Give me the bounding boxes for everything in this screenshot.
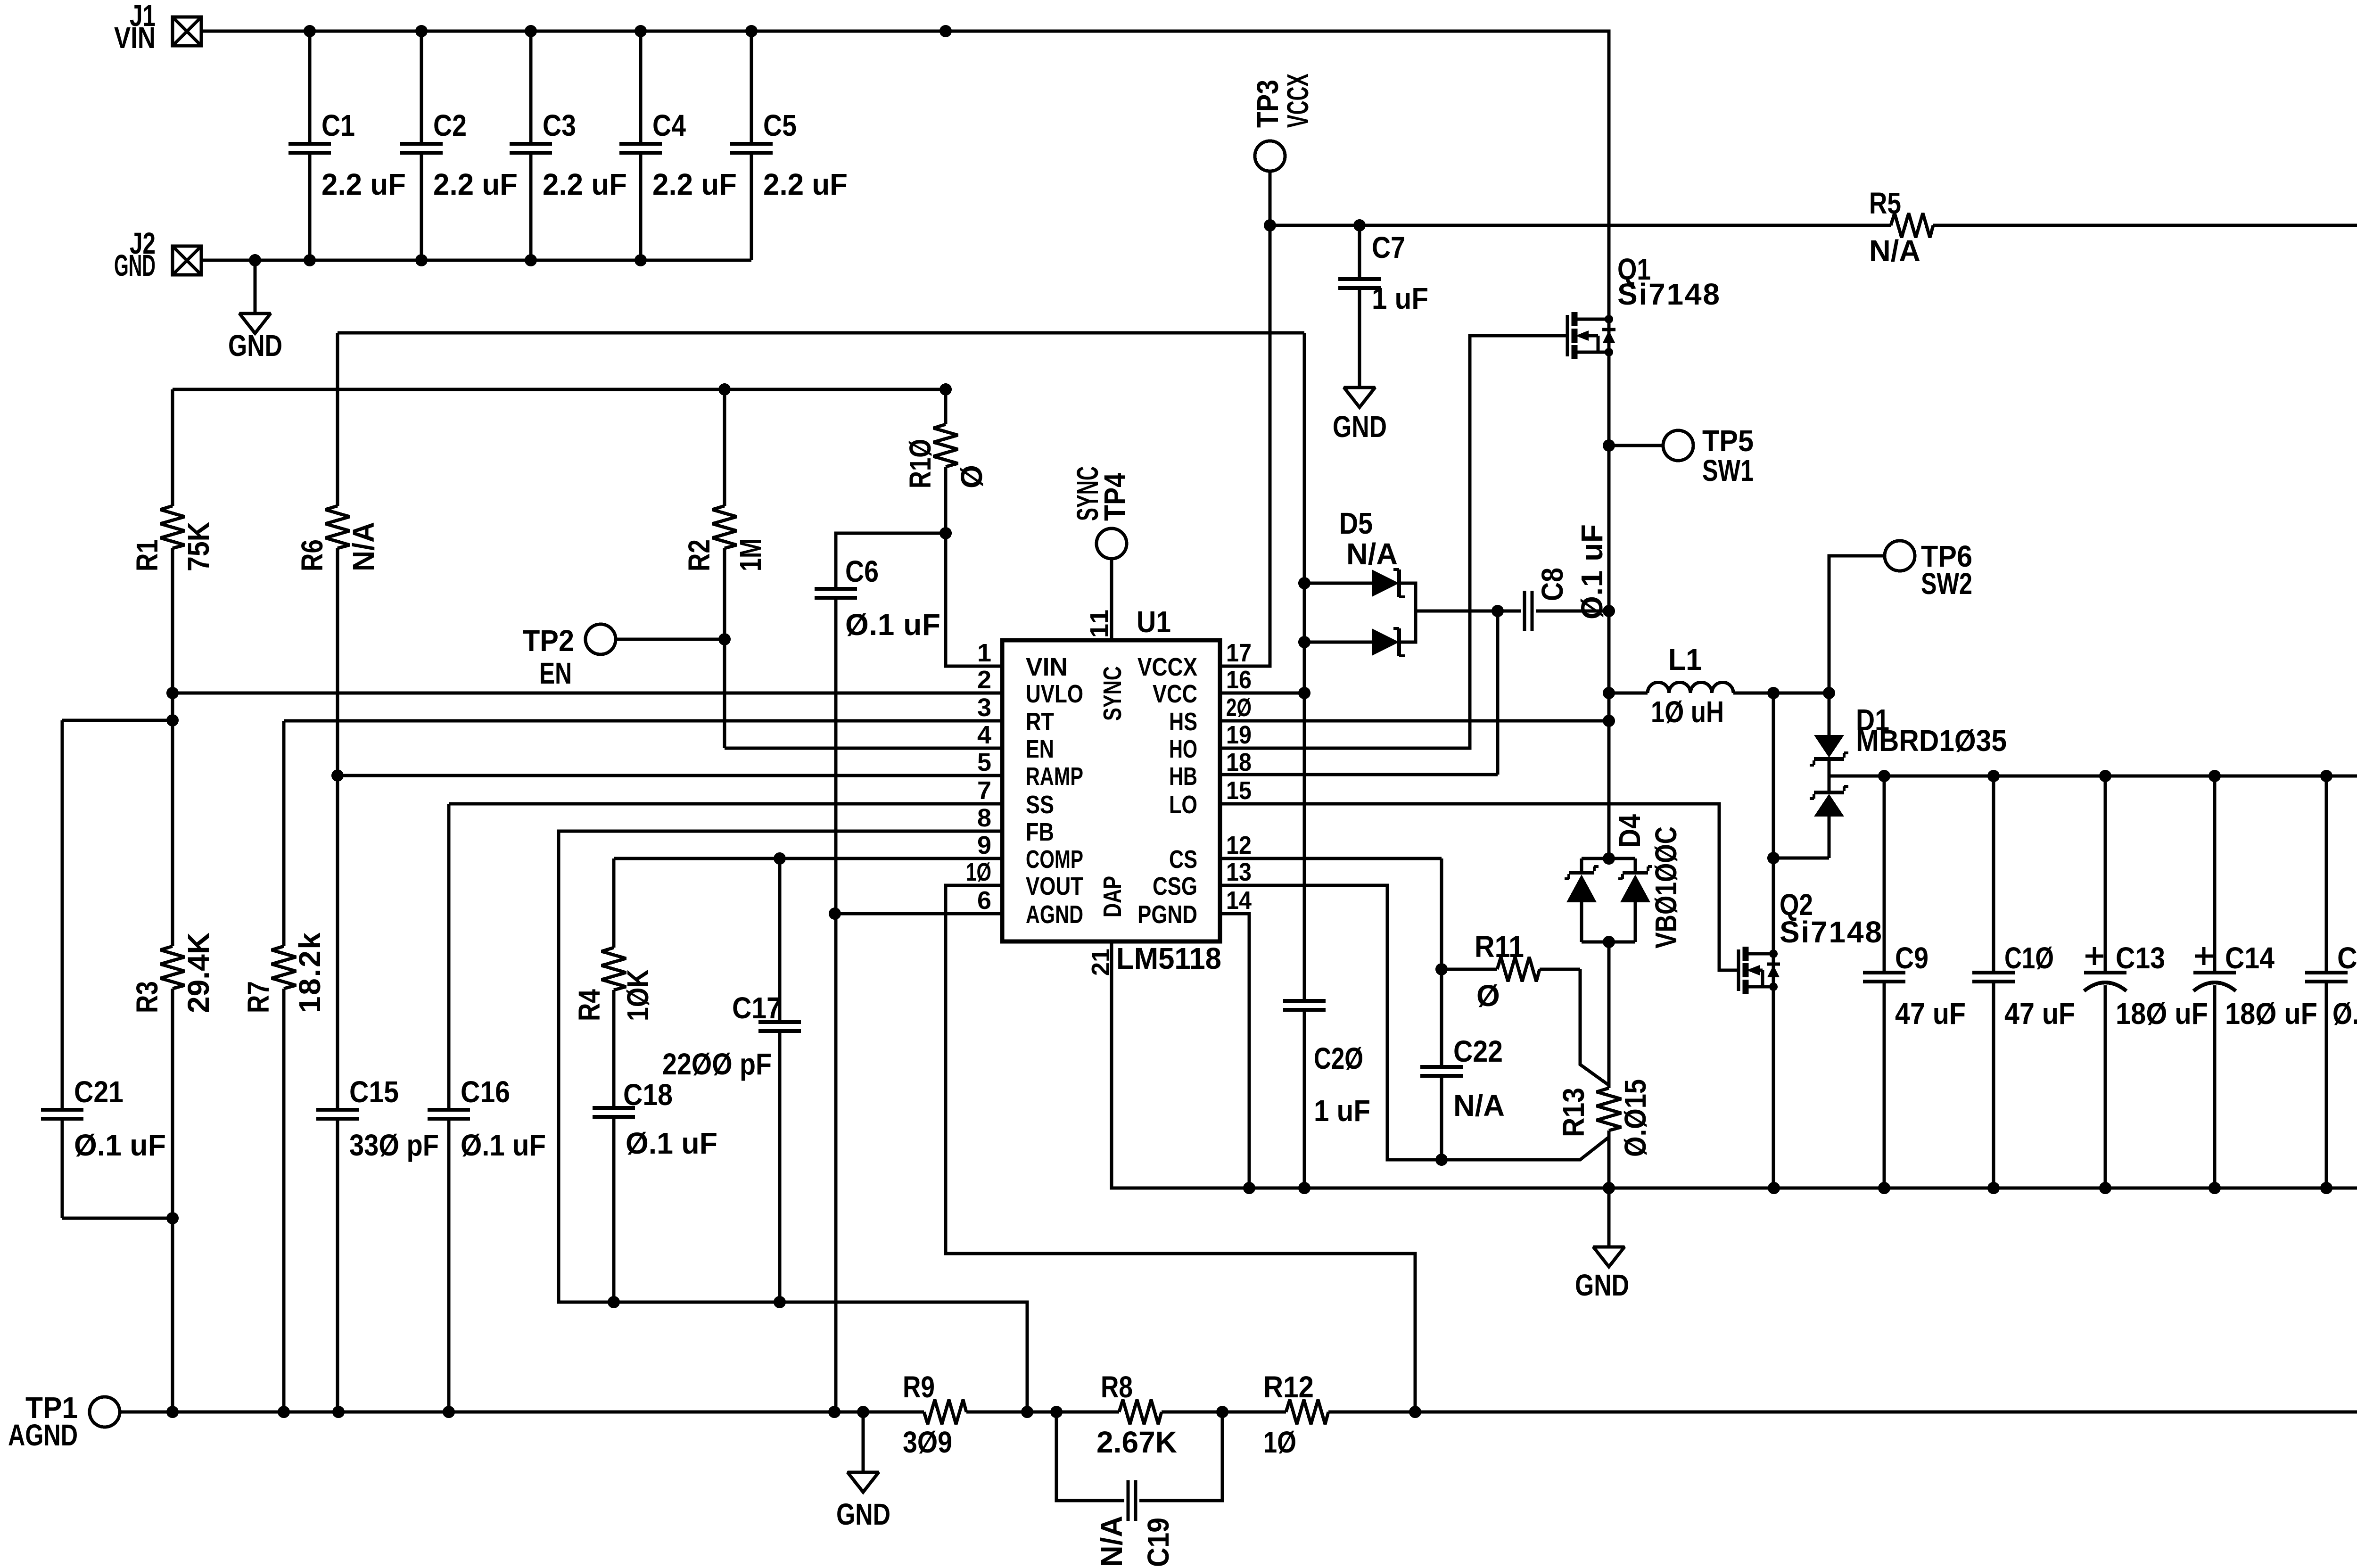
wire SS net pin7 <box>449 802 1002 806</box>
svg-text:R3: R3 <box>130 981 164 1013</box>
wire HS pin20 <box>1220 715 1615 727</box>
resistor R2 1M <box>682 389 767 748</box>
svg-text:L1: L1 <box>1668 643 1702 677</box>
svg-text:7: 7 <box>977 776 991 805</box>
capacitor C6 0.1 uF <box>815 533 946 1412</box>
capacitor C21 0.1 uF <box>41 720 166 1218</box>
diode D1 MBRD1035 <box>1810 693 2007 858</box>
resistor R7 18.2k <box>241 721 327 1412</box>
U1 left pin 8 FB <box>977 804 1054 846</box>
wire PGND pin14 <box>1220 914 1249 1188</box>
svg-text:EN: EN <box>1026 735 1054 763</box>
svg-text:VOUT: VOUT <box>1026 872 1083 900</box>
svg-text:Ø.1 uF: Ø.1 uF <box>74 1128 166 1162</box>
svg-text:N/A: N/A <box>1346 537 1398 571</box>
resistor R5 N/A <box>1869 186 1933 268</box>
testpoint TP2 EN <box>523 624 731 690</box>
diode D4 VB0100C dual <box>1565 814 1683 949</box>
transistor Q2 Si7148 <box>1739 888 1882 994</box>
svg-text:C4: C4 <box>652 108 686 142</box>
svg-text:HO: HO <box>1169 735 1197 763</box>
connector J1 VIN <box>114 0 201 55</box>
svg-text:17: 17 <box>1226 639 1252 667</box>
svg-text:VCCX: VCCX <box>1281 74 1315 128</box>
svg-text:3Ø9: 3Ø9 <box>903 1425 952 1459</box>
svg-text:15: 15 <box>1226 776 1252 805</box>
U1 left pin 6 AGND <box>977 886 1083 929</box>
svg-text:2.2 uF: 2.2 uF <box>652 167 737 201</box>
svg-text:18Ø uF: 18Ø uF <box>2225 997 2317 1031</box>
svg-text:RT: RT <box>1026 708 1054 736</box>
svg-text:PGND: PGND <box>1137 900 1197 929</box>
svg-text:R1: R1 <box>130 539 164 571</box>
ground symbol below C7 <box>1333 388 1387 444</box>
wire C21 bottom to R3 <box>62 1212 179 1224</box>
U1 left pin 5 RAMP <box>977 748 1083 791</box>
testpoint TP4 SYNC <box>1071 466 1132 640</box>
svg-text:AGND: AGND <box>1026 900 1083 929</box>
svg-text:C17: C17 <box>732 991 782 1025</box>
svg-text:Ø: Ø <box>1476 979 1500 1013</box>
U1 right pin 14 PGND <box>1137 886 1252 929</box>
svg-text:R9: R9 <box>903 1370 935 1404</box>
svg-text:C2: C2 <box>433 108 467 142</box>
svg-text:4: 4 <box>977 721 991 749</box>
diode D5 N/A dual <box>1304 506 1416 656</box>
junction D5 anodes on VCC line <box>1298 577 1310 648</box>
svg-text:LM5118: LM5118 <box>1116 941 1221 975</box>
svg-text:Ø.47 uF: Ø.47 uF <box>2332 997 2357 1031</box>
svg-text:CSG: CSG <box>1153 872 1197 900</box>
svg-text:C14: C14 <box>2225 941 2275 975</box>
svg-text:1ØK: 1ØK <box>621 969 655 1021</box>
svg-text:Ø.Ø15: Ø.Ø15 <box>1618 1079 1652 1157</box>
capacitor C14 180 uF polarized <box>2193 776 2317 1188</box>
svg-text:1Ø: 1Ø <box>966 858 991 886</box>
svg-text:Ø.1 uF: Ø.1 uF <box>626 1126 717 1160</box>
svg-text:C11: C11 <box>2337 941 2357 975</box>
svg-text:C5: C5 <box>763 108 797 142</box>
wire LO pin15 to Q2 gate <box>1220 804 1739 970</box>
svg-text:R12: R12 <box>1263 1370 1314 1404</box>
wire AGND rail <box>119 1406 1033 1418</box>
svg-text:Ø.1 uF: Ø.1 uF <box>461 1128 546 1162</box>
svg-text:SYNC: SYNC <box>1098 666 1127 721</box>
U1 right pin 16 VCC <box>1153 666 1252 708</box>
wire VCC rail y=706 <box>338 331 1304 335</box>
svg-text:FB: FB <box>1026 818 1054 846</box>
svg-text:TP5: TP5 <box>1702 424 1754 458</box>
svg-text:1 uF: 1 uF <box>1314 1094 1370 1128</box>
capacitor C22 N/A <box>1420 969 1505 1160</box>
svg-text:2.2 uF: 2.2 uF <box>321 167 406 201</box>
svg-text:C8: C8 <box>1535 568 1569 601</box>
svg-text:VIN: VIN <box>114 21 156 55</box>
svg-text:TP4: TP4 <box>1098 473 1132 521</box>
capacitor C1 2.2 uF <box>288 31 406 260</box>
wire VCC pin16 to C20 <box>1220 687 1310 699</box>
svg-text:R7: R7 <box>241 981 275 1013</box>
svg-text:9: 9 <box>977 831 991 859</box>
svg-text:C13: C13 <box>2116 941 2165 975</box>
svg-text:33Ø pF: 33Ø pF <box>349 1128 439 1162</box>
svg-text:C21: C21 <box>74 1075 124 1109</box>
svg-text:13: 13 <box>1226 858 1252 886</box>
svg-text:CS: CS <box>1169 845 1197 874</box>
svg-text:2: 2 <box>977 666 991 694</box>
capacitor C18 0.1 uF <box>593 1078 717 1302</box>
wire SW1 node vertical <box>1603 352 1615 858</box>
svg-text:R6: R6 <box>295 539 329 571</box>
resistor R8 2.67K <box>1050 1370 1228 1459</box>
svg-text:N/A: N/A <box>1869 234 1920 268</box>
svg-text:2.2 uF: 2.2 uF <box>763 167 848 201</box>
svg-text:18.2k: 18.2k <box>293 933 327 1013</box>
svg-text:C19: C19 <box>1141 1518 1175 1567</box>
connector J2 GND <box>114 226 201 282</box>
svg-text:D4: D4 <box>1613 814 1647 848</box>
U1 left pin 9 COMP <box>977 831 1083 874</box>
wire HB boot node <box>1220 605 1521 775</box>
U1 right pin 19 HO <box>1169 721 1252 763</box>
svg-text:GND: GND <box>1333 410 1387 444</box>
resistor R6 N/A <box>295 333 380 776</box>
svg-text:VIN: VIN <box>1026 653 1068 681</box>
svg-text:C6: C6 <box>845 554 879 588</box>
resistor R1 75K <box>130 389 215 693</box>
wire VIN pin1 <box>946 533 1002 666</box>
svg-text:2.2 uF: 2.2 uF <box>543 167 627 201</box>
svg-text:LO: LO <box>1169 791 1197 819</box>
resistor R11 0 <box>1442 930 1580 1013</box>
svg-text:R1Ø: R1Ø <box>903 439 937 488</box>
capacitor C19 N/A <box>1056 1412 1222 1567</box>
capacitor C8 0.1 uF <box>1525 524 1609 631</box>
svg-text:N/A: N/A <box>346 522 380 571</box>
svg-text:C9: C9 <box>1895 941 1928 975</box>
svg-text:DAP: DAP <box>1098 876 1127 917</box>
svg-text:EN: EN <box>539 656 572 690</box>
capacitor C2 2.2 uF <box>400 31 518 260</box>
svg-text:3: 3 <box>977 693 991 722</box>
wire VIN top rail <box>201 31 1609 319</box>
U1 left pin 4 EN <box>977 721 1054 763</box>
svg-text:GND: GND <box>114 248 156 282</box>
U1 pin 21 DAP label <box>1087 876 1127 976</box>
svg-text:MBRD1Ø35: MBRD1Ø35 <box>1856 724 2007 758</box>
svg-text:HB: HB <box>1169 762 1197 791</box>
svg-text:Si7148: Si7148 <box>1780 915 1882 949</box>
junction PGND rail dots <box>1243 1182 2357 1194</box>
svg-text:C3: C3 <box>543 108 576 142</box>
svg-text:2Ø: 2Ø <box>1226 693 1252 722</box>
svg-text:VCC: VCC <box>1153 680 1197 708</box>
wire VOUT rail <box>1829 770 2357 782</box>
svg-text:D5: D5 <box>1339 506 1373 540</box>
wire VOUT feedback wrap <box>1409 776 2357 1418</box>
svg-text:1M: 1M <box>733 538 767 571</box>
U1 right pin 17 VCCX <box>1137 639 1252 681</box>
resistor R4 10K <box>572 858 655 1106</box>
resistor R9 309 <box>903 1370 1056 1459</box>
svg-text:C7: C7 <box>1372 231 1405 264</box>
svg-text:R13: R13 <box>1557 1088 1591 1137</box>
svg-text:N/A: N/A <box>1453 1089 1505 1122</box>
U1 right pin 20 HS <box>1169 693 1252 736</box>
svg-text:18Ø uF: 18Ø uF <box>2116 997 2208 1031</box>
U1 right pin 12 CS <box>1169 831 1252 874</box>
capacitor C13 180 uF polarized <box>2084 776 2208 1188</box>
junction SW2 node dots <box>1767 687 1835 699</box>
svg-text:N/A: N/A <box>1095 1516 1129 1567</box>
U1 left pin 3 RT <box>977 693 1054 736</box>
ground symbol on AGND rail <box>836 1412 890 1531</box>
resistor R13 0.015 <box>1557 942 1652 1188</box>
svg-text:UVLO: UVLO <box>1026 680 1083 708</box>
wire DAP pin21 to PGND rail <box>1112 941 2357 1188</box>
testpoint TP6 SW2 <box>1829 539 1972 693</box>
wire RAMP net pin5 <box>331 769 1002 782</box>
wire Q2 drain/source <box>1772 858 1775 1188</box>
svg-text:C2Ø: C2Ø <box>1314 1041 1363 1075</box>
svg-text:AGND: AGND <box>8 1418 78 1452</box>
svg-text:1Ø: 1Ø <box>1263 1425 1296 1459</box>
wire FB net pin8 <box>559 831 1027 1412</box>
capacitor C20 1 uF <box>1283 333 1370 1188</box>
svg-text:Si7148: Si7148 <box>1617 277 1720 311</box>
svg-text:VBØ1ØØC: VBØ1ØØC <box>1649 826 1683 949</box>
svg-text:18: 18 <box>1226 748 1252 776</box>
wire VCCX pin17 <box>1220 225 1270 666</box>
svg-text:R2: R2 <box>682 539 716 571</box>
capacitor C15 330 pF <box>316 776 439 1412</box>
testpoint TP5 SW1 <box>1603 424 1754 487</box>
wire UVLO net pin2 <box>166 687 1002 699</box>
capacitor C7 1 uF <box>1338 225 1428 388</box>
svg-text:HS: HS <box>1169 708 1197 736</box>
svg-text:R11: R11 <box>1475 930 1524 964</box>
junction R10 bottom C6 tap <box>940 527 952 539</box>
wire EN net pin4 <box>725 747 1002 750</box>
junction FB comp rail dots <box>608 1296 786 1308</box>
svg-text:14: 14 <box>1226 886 1252 915</box>
U1 left pin 1 VIN <box>977 639 1068 681</box>
svg-text:5: 5 <box>977 748 991 776</box>
svg-text:1 uF: 1 uF <box>1372 281 1428 315</box>
U1 right pin 15 LO <box>1169 776 1252 819</box>
wire HO pin19 to Q1 gate <box>1220 336 1567 748</box>
svg-text:1: 1 <box>977 639 991 667</box>
wire VIN divider rail y=826 <box>173 383 952 396</box>
U1 left pin 2 UVLO <box>977 666 1083 708</box>
U1 right pin 18 HB <box>1169 748 1252 791</box>
ground symbol below R13 <box>1575 1188 1629 1302</box>
svg-text:C1: C1 <box>321 108 355 142</box>
svg-text:COMP: COMP <box>1026 845 1083 874</box>
resistor R12 10 <box>1222 1370 1415 1459</box>
svg-text:SW2: SW2 <box>1921 567 1972 601</box>
capacitor C16 0.1 uF <box>428 804 546 1412</box>
testpoint TP3 VCCX <box>1251 74 1315 225</box>
svg-text:SW1: SW1 <box>1702 454 1754 487</box>
svg-text:75K: 75K <box>181 522 215 571</box>
svg-text:GND: GND <box>228 329 282 363</box>
svg-text:R8: R8 <box>1101 1370 1133 1404</box>
wire COMP net pin9 <box>614 852 1002 865</box>
svg-text:R5: R5 <box>1869 186 1901 220</box>
svg-text:RAMP: RAMP <box>1026 762 1083 791</box>
capacitor C3 2.2 uF <box>510 31 627 260</box>
svg-text:16: 16 <box>1226 666 1252 694</box>
capacitor C4 2.2 uF <box>619 31 737 260</box>
svg-text:47 uF: 47 uF <box>1895 997 1966 1031</box>
svg-text:2.2 uF: 2.2 uF <box>433 167 518 201</box>
resistor R3 29.4K <box>130 720 215 1412</box>
junction VIN rail dots <box>304 25 952 37</box>
svg-text:R4: R4 <box>572 989 606 1021</box>
capacitor C9 47 uF <box>1863 776 1966 1188</box>
svg-text:22ØØ pF: 22ØØ pF <box>662 1047 772 1081</box>
svg-text:8: 8 <box>977 804 991 832</box>
wire D1 anode return to SW2 <box>1767 693 1829 864</box>
U1 left pin 10 VOUT <box>966 858 1083 900</box>
svg-text:Ø.1 uF: Ø.1 uF <box>1575 524 1609 619</box>
wire R5 to VOUT rail <box>1933 225 2357 776</box>
svg-text:U1: U1 <box>1137 605 1171 639</box>
inductor L1 10 uH <box>1609 643 1829 729</box>
resistor R10 0 <box>903 389 989 533</box>
svg-text:1Ø uH: 1Ø uH <box>1651 695 1724 729</box>
wire C21 top link <box>62 693 179 726</box>
ground symbol below J2 <box>228 260 282 363</box>
svg-text:Ø: Ø <box>955 465 989 488</box>
capacitor C17 2200 pF <box>662 858 801 1302</box>
svg-text:C22: C22 <box>1453 1034 1503 1068</box>
svg-text:29.4K: 29.4K <box>181 933 215 1013</box>
U1 left pin 7 SS <box>977 776 1054 819</box>
capacitor C10 47 uF <box>1972 776 2075 1188</box>
svg-text:SS: SS <box>1026 791 1054 819</box>
wire AGND pin6 <box>829 908 1002 920</box>
U1 right pin 13 CSG <box>1153 858 1252 900</box>
svg-text:2.67K: 2.67K <box>1096 1425 1177 1459</box>
svg-text:6: 6 <box>977 886 991 915</box>
wire CSG pin13 kelvin <box>1220 885 1609 1166</box>
svg-text:TP3: TP3 <box>1251 80 1285 128</box>
svg-text:GND: GND <box>1575 1268 1629 1302</box>
svg-text:11: 11 <box>1085 610 1113 638</box>
svg-text:12: 12 <box>1226 831 1252 859</box>
svg-text:C16: C16 <box>461 1075 510 1109</box>
svg-text:TP2: TP2 <box>523 624 574 658</box>
svg-text:47 uF: 47 uF <box>2004 997 2075 1031</box>
svg-text:GND: GND <box>836 1497 890 1531</box>
svg-text:Ø.1 uF: Ø.1 uF <box>845 608 940 642</box>
svg-text:C18: C18 <box>623 1078 673 1112</box>
svg-text:C15: C15 <box>349 1075 399 1109</box>
U1 pin 11 SYNC label <box>1085 610 1127 721</box>
svg-text:19: 19 <box>1226 721 1252 749</box>
testpoint TP1 AGND <box>8 1391 120 1452</box>
wire RT net pin3 <box>284 719 1002 723</box>
wire CS pin12 to R11 <box>1220 858 1448 975</box>
capacitor C11 0.47 uF <box>2305 776 2357 1188</box>
IC U1 LM5118 body <box>1002 605 1221 975</box>
wire VOUT sense pin10 <box>946 885 1415 1412</box>
wire VCCX rail y=478 <box>1264 219 1891 231</box>
svg-text:C1Ø: C1Ø <box>2004 941 2054 975</box>
capacitor C5 2.2 uF <box>730 31 848 260</box>
wire R11 kelvin to R13 top <box>1580 969 1609 1085</box>
transistor Q1 Si7148 <box>1567 252 1720 359</box>
svg-text:VCCX: VCCX <box>1137 653 1197 681</box>
wire input GND rail <box>201 254 751 266</box>
